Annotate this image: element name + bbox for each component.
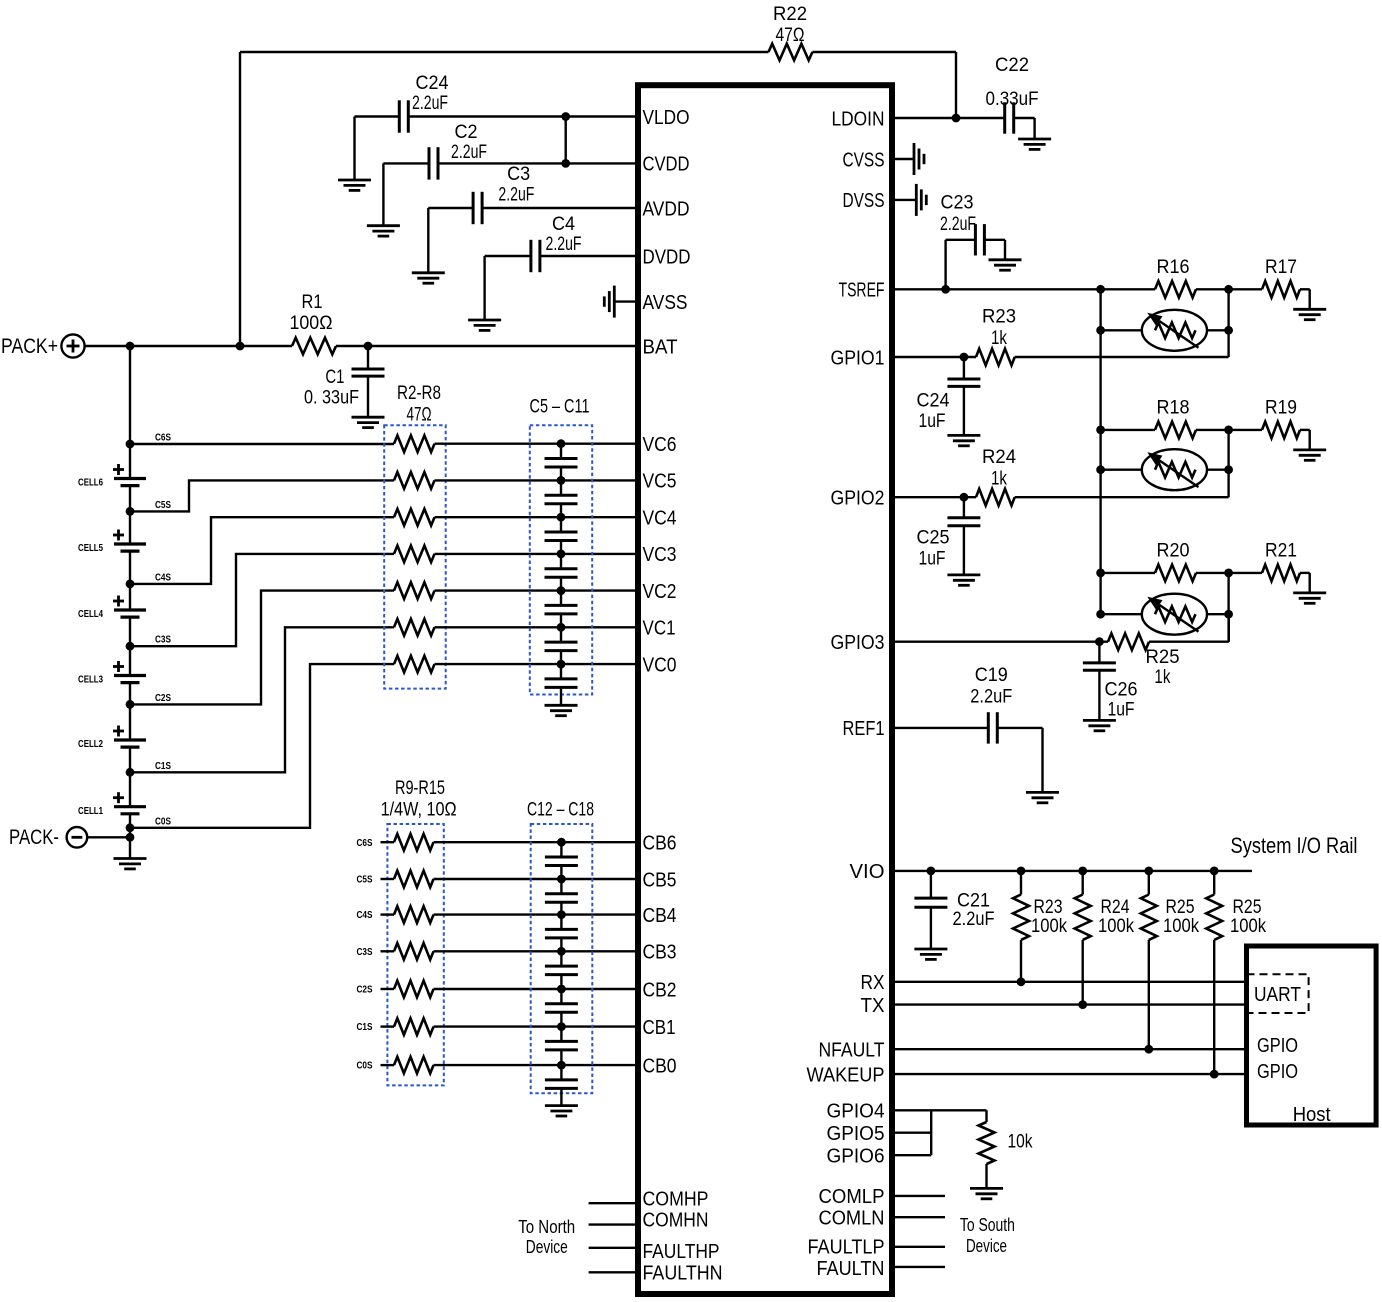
resistor R25 100k pullup [1144,867,1153,876]
node thermistor left [1096,326,1105,335]
svg-text:R18: R18 [1157,397,1190,418]
svg-text:2.2uF: 2.2uF [940,214,976,235]
svg-text:DVDD: DVDD [643,246,691,268]
resistor R17 [1229,288,1262,290]
resistor 10k [985,1110,987,1122]
wire TX [895,1003,1244,1005]
wire CVDD [438,162,635,164]
capacitor C3 2.2uF (AVDD) [472,192,475,224]
svg-text:C19: C19 [975,665,1008,686]
svg-text:R22: R22 [773,4,807,25]
svg-text:NFAULT: NFAULT [819,1040,885,1062]
ground C23 [989,258,1022,261]
resistor R11 [381,913,395,915]
svg-text:VC5: VC5 [643,471,677,493]
node VC4 cap tap [557,513,566,522]
resistor R25 100k pullup [1210,867,1219,876]
svg-text:System I/O Rail: System I/O Rail [1231,833,1358,858]
svg-text:GPIO1: GPIO1 [831,347,885,369]
resistor R24 1k [976,489,1015,506]
svg-text:C6S: C6S [357,837,373,849]
node thermistor left [1096,610,1105,619]
svg-text:CELL2: CELL2 [78,738,103,750]
svg-text:C5 – C11: C5 – C11 [530,397,590,418]
wire VC1 to IC [435,626,636,628]
ground C24 [338,179,371,182]
node C1S [126,768,135,777]
node VC3 cap tap [557,550,566,559]
wire C4 to ground [485,255,531,257]
node BAT R22 [236,342,245,351]
svg-text:REF1: REF1 [843,718,885,740]
svg-text:CB0: CB0 [643,1055,677,1077]
capacitor C13 [560,879,562,894]
battery CELL4 [114,608,146,611]
wire battery stack vertical [129,346,131,479]
node BAT C1 [364,342,373,351]
ground C12-C18 chain [545,1104,578,1107]
ground C22 [1018,138,1051,141]
resistor R15 [381,1064,395,1066]
resistor R10 [381,878,395,880]
node R18 right [1224,426,1233,435]
IC U1 bq76xx monitor body [638,85,892,1294]
capacitor C19 2.2uF [987,712,990,743]
svg-text:CB2: CB2 [643,979,677,1001]
svg-text:Device: Device [966,1236,1007,1256]
node GPIO2 C25 tap [960,493,969,502]
svg-text:C6S: C6S [155,432,171,444]
svg-text:1/4W, 10Ω: 1/4W, 10Ω [381,800,457,821]
capacitor C25 1uF (GPIO2) [963,497,965,518]
svg-text:UART: UART [1254,984,1301,1006]
wire GPIO6 [895,1154,931,1156]
node thermistor right [1224,610,1233,619]
svg-text:DVSS: DVSS [843,190,885,212]
wire GPIO3 [895,641,1108,643]
svg-text:CB4: CB4 [643,905,677,927]
wire net C0S from cell stack [130,664,394,828]
resistor R1 100ohm [292,338,336,355]
svg-text:VC4: VC4 [643,508,677,530]
svg-text:C22: C22 [995,55,1029,76]
svg-text:GPIO4: GPIO4 [827,1101,885,1123]
capacitor C1 0.33uF [367,346,369,369]
svg-text:C5S: C5S [357,874,373,886]
wire CB6 to IC [434,841,636,843]
capacitor C4 2.2uF (DVDD) [529,240,532,272]
node thermistor right [1224,326,1233,335]
battery CELL5 [114,542,146,545]
svg-text:C1S: C1S [357,1021,373,1033]
resistor R9 [381,841,395,843]
capacitor C8 [560,554,562,569]
wire GPIO2 [895,496,976,498]
capacitor C18 [560,1065,562,1080]
capacitor C6 [560,480,562,495]
svg-text:COMLN: COMLN [819,1208,885,1230]
node LDOIN junction [952,114,961,123]
ground battery stack [114,857,147,860]
wire thermistor right to GPIO row [1227,573,1229,642]
ground C26 GPIO3 [1083,719,1116,722]
svg-text:R25: R25 [1146,647,1180,668]
node R20 right [1224,569,1233,578]
ground C21 [914,948,947,951]
svg-text:R20: R20 [1157,540,1190,561]
svg-text:COMLP: COMLP [819,1186,885,1208]
node VC0 cap tap [557,660,566,669]
wire COMLN stub [895,1216,945,1218]
svg-text:R17: R17 [1265,257,1297,278]
wire NFAULT [895,1048,1244,1050]
terminal PACK+ [61,334,84,357]
resistor R4 [394,509,435,526]
capacitor C12 [560,842,562,857]
wire LDOIN [895,117,1005,119]
battery CELL1 [114,805,146,808]
wire net C4S from cell stack [130,517,394,584]
svg-text:1k: 1k [1154,667,1170,688]
svg-text:Host: Host [1293,1104,1331,1126]
ground CVSS [895,158,914,160]
wire net C3S from cell stack [130,554,394,646]
capacitor C16 [560,989,562,1004]
resistor R18 [1101,429,1155,431]
wire COMHP stub [589,1202,635,1204]
node CB5 cap tap [557,875,566,884]
svg-text:GPIO6: GPIO6 [827,1146,885,1168]
svg-text:C4: C4 [552,214,575,235]
svg-text:1uF: 1uF [919,411,946,432]
svg-text:VIO: VIO [850,861,885,883]
thermistor [1101,613,1142,615]
thermistor [1101,469,1142,471]
node thermistor right [1224,465,1233,474]
svg-text:100k: 100k [1163,916,1199,937]
node C5S [126,507,135,516]
capacitor C5 [560,444,562,459]
wire BAT rail [85,345,292,347]
wire C3 to ground [428,207,473,209]
wire FAULTN stub [895,1266,945,1268]
wire RX [895,981,1244,983]
resistor R24 100k pullup [1078,867,1087,876]
svg-text:GPIO: GPIO [1257,1061,1298,1083]
svg-text:LDOIN: LDOIN [832,108,885,130]
node CB2 cap tap [557,985,566,994]
node C6S [126,440,135,449]
svg-text:GPIO5: GPIO5 [827,1123,885,1145]
svg-text:2.2uF: 2.2uF [451,142,487,163]
svg-text:FAULTLP: FAULTLP [808,1236,885,1258]
svg-text:C3: C3 [507,164,530,185]
svg-text:Device: Device [526,1237,568,1257]
wire vertical left of R22 rail to BAT rail [239,52,241,346]
capacitor C10 [560,627,562,642]
wire FAULTHP stub [589,1247,635,1249]
wire CB2 to IC [434,988,636,990]
node C0S [126,823,135,832]
svg-text:C24: C24 [416,73,449,94]
svg-text:GPIO: GPIO [1257,1035,1298,1057]
battery CELL6 [114,477,146,480]
svg-text:2.2uF: 2.2uF [970,687,1012,708]
capacitor bank C12-C18 box [531,824,593,1093]
svg-text:C0S: C0S [357,1060,373,1072]
wire DVDD [540,255,635,257]
node CB6 cap tap [557,838,566,847]
wire PACK+ to R22 top rail [240,51,769,53]
svg-text:1k: 1k [991,328,1007,349]
svg-text:BAT: BAT [643,336,678,358]
wire VC5 to IC [435,479,636,481]
svg-text:C4S: C4S [155,571,171,583]
svg-text:1uF: 1uF [919,549,946,570]
wire COMHN stub [589,1223,635,1225]
wire GPIO tie vertical [930,1110,932,1155]
svg-text:VC3: VC3 [643,544,677,566]
wire AVDD [482,207,635,209]
svg-text:CELL6: CELL6 [78,477,103,489]
svg-text:2.2uF: 2.2uF [953,909,995,930]
wire WAKEUP [895,1073,1244,1075]
resistor bank R9-R15 box [387,824,443,1085]
svg-text:CELL3: CELL3 [78,674,103,686]
svg-text:R24: R24 [982,447,1016,468]
capacitor C14 [560,915,562,930]
svg-text:R19: R19 [1265,397,1297,418]
node R20 left [1096,569,1105,578]
wire VLDO [408,115,635,117]
capacitor C9 [560,591,562,606]
svg-text:TX: TX [861,995,885,1017]
wire REF1 [895,727,988,729]
node C3S [126,642,135,651]
svg-text:C3S: C3S [357,946,373,958]
svg-text:CELL5: CELL5 [78,542,103,554]
node C4S [126,580,135,589]
node CB3 cap tap [557,947,566,956]
thermistor [1101,329,1142,331]
resistor R13 [381,988,395,990]
svg-text:CELL4: CELL4 [78,608,103,620]
svg-text:FAULTHP: FAULTHP [643,1241,720,1263]
node R16 left [1096,285,1105,294]
wire C24 to ground [355,115,401,117]
node BAT cellstack [126,342,135,351]
ground DVSS [895,199,916,201]
wire VIO rail [895,870,1252,872]
svg-text:C4S: C4S [357,909,373,921]
svg-text:AVDD: AVDD [643,198,690,220]
wire FAULTHN stub [589,1271,635,1273]
wire net C6S from cell stack [130,443,394,445]
wire TSREF [895,288,1101,290]
wire VC0 to IC [435,663,636,665]
node CB4 cap tap [557,910,566,919]
battery CELL2 [114,738,146,741]
node VC2 cap tap [557,586,566,595]
resistor R21 [1229,572,1262,574]
svg-text:C3S: C3S [155,634,171,646]
wire CB5 to IC [434,878,636,880]
svg-text:GPIO3: GPIO3 [831,632,885,654]
node VC6 cap tap [557,439,566,448]
svg-text:WAKEUP: WAKEUP [807,1064,885,1086]
svg-text:R9-R15: R9-R15 [395,778,445,799]
wire VC3 to IC [435,553,636,555]
resistor R25 1k [1108,633,1149,650]
capacitor C7 [560,517,562,532]
svg-text:C1: C1 [325,367,344,388]
resistor R20 [1101,572,1155,574]
node VC1 cap tap [557,623,566,632]
ground C2 [367,224,400,227]
resistor R2 [394,435,435,452]
svg-text:C2: C2 [455,122,478,143]
resistor R3 [394,472,435,489]
wire C2 to ground [383,162,429,164]
wire TSREF vertical to thermistors [1099,289,1101,614]
capacitor C15 [560,951,562,966]
node TSREF C23 tap [941,285,950,294]
wire COMLP stub [895,1195,945,1197]
node GPIO3 C26 tap [1095,637,1104,646]
ground C3 [412,271,445,274]
svg-text:1uF: 1uF [1108,700,1135,721]
node VC5 cap tap [557,476,566,485]
capacitor C26 1uF (GPIO3) [1098,642,1100,663]
svg-text:47Ω: 47Ω [407,405,432,426]
svg-text:C24: C24 [917,391,950,412]
wire VC4 to IC [435,516,636,518]
svg-text:10k: 10k [1008,1132,1033,1153]
capacitor C24 1uF (GPIO1) [963,357,965,379]
wire CB3 to IC [434,950,636,952]
wire net C1S from cell stack [130,627,394,772]
svg-text:100k: 100k [1031,916,1067,937]
svg-text:1k: 1k [991,469,1007,490]
node GPIO1 C24 tap [960,353,969,362]
ground C24 GPIO1 [947,434,980,437]
node thermistor left [1096,465,1105,474]
svg-text:COMHN: COMHN [643,1209,709,1231]
capacitor C24 2.2uF (VLDO) [398,100,401,132]
svg-text:0. 33uF: 0. 33uF [304,388,359,409]
wire thermistor right to GPIO row [1227,430,1229,497]
svg-text:FAULTHN: FAULTHN [643,1263,723,1285]
svg-text:VC6: VC6 [643,434,677,456]
svg-text:R23: R23 [982,307,1016,328]
svg-text:2.2uF: 2.2uF [546,234,582,255]
svg-text:CB6: CB6 [643,833,677,855]
svg-text:VLDO: VLDO [643,107,690,129]
svg-text:CELL1: CELL1 [78,805,103,817]
wire GPIO3 right vertical [1228,614,1230,642]
svg-text:C26: C26 [1105,680,1138,701]
svg-text:VC2: VC2 [643,581,677,603]
ground C1 [352,416,385,419]
svg-text:To South: To South [960,1215,1015,1235]
svg-text:C0S: C0S [155,815,171,827]
node C2S [126,700,135,709]
resistor R5 [394,546,435,563]
resistor R16 [1101,288,1155,290]
svg-text:R21: R21 [1265,540,1297,561]
svg-text:47Ω: 47Ω [776,25,805,46]
svg-text:0.33uF: 0.33uF [986,89,1039,110]
svg-text:CB1: CB1 [643,1017,676,1039]
svg-text:FAULTN: FAULTN [817,1258,885,1280]
svg-text:C2S: C2S [357,984,373,996]
ground C25 GPIO2 [947,574,980,577]
svg-text:C2S: C2S [155,692,171,704]
wire FAULTLP stub [895,1246,945,1248]
wire net C2S from cell stack [130,591,394,705]
capacitor bank C5-C11 box [530,425,592,694]
svg-text:100Ω: 100Ω [290,313,333,334]
resistor R19 [1229,429,1262,431]
svg-text:R23: R23 [1034,897,1063,918]
wire CB4 to IC [434,913,636,915]
svg-text:AVSS: AVSS [643,292,688,314]
capacitor C17 [560,1027,562,1042]
svg-text:TSREF: TSREF [839,280,885,302]
UART block [1247,974,1309,1013]
wire GPIO4 [895,1109,987,1111]
svg-text:R2-R8: R2-R8 [397,383,441,404]
wire CB1 to IC [434,1025,636,1027]
svg-text:R16: R16 [1157,257,1190,278]
wire VC6 to IC [435,443,636,445]
svg-text:VC0: VC0 [643,654,677,676]
node R18 left [1096,426,1105,435]
svg-text:R25: R25 [1233,897,1262,918]
ground C4 [468,319,501,322]
node VLDO tie [561,112,570,121]
svg-text:COMHP: COMHP [643,1189,709,1211]
svg-text:R1: R1 [302,292,323,313]
svg-text:C1S: C1S [155,760,171,772]
wire thermistor right to GPIO row [1227,289,1229,357]
ground R19 [1293,448,1326,451]
battery CELL3 [114,674,146,677]
resistor R23 1k [976,349,1015,366]
ground R21 [1293,592,1326,595]
svg-text:CVDD: CVDD [643,154,690,176]
svg-text:To North: To North [518,1217,575,1237]
svg-text:C12 – C18: C12 – C18 [527,800,594,821]
svg-text:100k: 100k [1230,916,1266,937]
resistor bank R2-R8 box [384,425,446,688]
ground AVSS [614,300,635,302]
resistor R8 [394,656,435,673]
node CVDD tie [561,159,570,168]
svg-text:R25: R25 [1166,897,1195,918]
resistor R14 [381,1025,395,1027]
node R16 right [1224,285,1233,294]
wire VC2 to IC [435,589,636,591]
svg-text:CB5: CB5 [643,869,677,891]
svg-text:R24: R24 [1101,897,1130,918]
svg-text:C25: C25 [917,528,950,549]
svg-text:GPIO2: GPIO2 [831,488,885,510]
ground C19 [1026,791,1059,794]
svg-text:RX: RX [861,972,885,994]
wire VLDO-CVDD tie [565,117,567,164]
svg-text:CB3: CB3 [643,942,677,964]
